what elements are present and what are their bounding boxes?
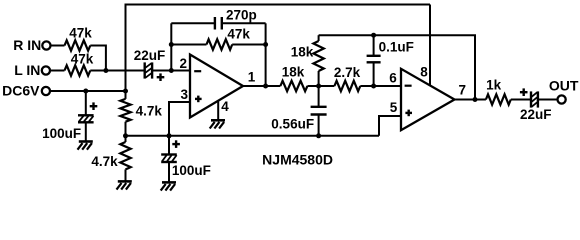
op-amp U1a xyxy=(190,55,243,118)
node bias/pin3 junction xyxy=(167,133,172,138)
terminal DC6V xyxy=(42,87,50,95)
wire V+ riser xyxy=(125,5,127,92)
svg-text:5: 5 xyxy=(390,100,398,115)
wire L IN to R2 xyxy=(50,70,64,72)
resistor R7 18k (feedback leg) xyxy=(291,35,324,86)
minus sign U1b xyxy=(405,85,412,87)
node C6 bottom xyxy=(316,133,321,138)
svg-text:0.56uF: 0.56uF xyxy=(271,116,314,131)
resistor R2 47k (L in) xyxy=(65,51,94,75)
svg-text:100uF: 100uF xyxy=(172,163,211,178)
node op2 output xyxy=(473,97,478,102)
wire R IN to R1 xyxy=(51,45,65,47)
resistor R9 1k xyxy=(486,78,531,105)
capacitor C4 270p xyxy=(171,7,265,29)
svg-text:NJM4580D: NJM4580D xyxy=(262,151,333,167)
ground supply cap xyxy=(78,142,93,150)
wire feedback right vertical xyxy=(265,23,267,86)
node A filter junction xyxy=(316,84,321,89)
resistor R4 4.7k (lower divider) xyxy=(91,136,130,182)
plus sign U1b xyxy=(405,112,412,114)
wire op2 out xyxy=(455,99,486,101)
node divider mid xyxy=(123,133,128,138)
svg-text:L IN: L IN xyxy=(14,62,40,78)
node divider top xyxy=(123,89,128,94)
svg-text:0.1uF: 0.1uF xyxy=(379,40,414,55)
node pin2/feedback xyxy=(169,68,174,73)
svg-text:18k: 18k xyxy=(282,65,305,80)
resistor R8 2.7k xyxy=(319,65,401,91)
wire DC6V rail xyxy=(50,90,125,92)
svg-text:4.7k: 4.7k xyxy=(91,154,118,169)
capacitor C6 0.56uF xyxy=(271,86,326,136)
wire C7 to OUT xyxy=(538,99,558,101)
wire filter feedback line xyxy=(319,35,475,99)
svg-text:OUT: OUT xyxy=(549,77,579,93)
svg-text:22uF: 22uF xyxy=(520,107,552,122)
svg-text:DC6V: DC6V xyxy=(2,82,40,98)
ground bias cap xyxy=(161,182,176,190)
ground pin 4 xyxy=(210,101,225,128)
svg-text:18k: 18k xyxy=(291,45,314,60)
resistor R5 47k feedback xyxy=(171,26,265,49)
svg-text:100uF: 100uF xyxy=(42,126,81,141)
svg-text:1k: 1k xyxy=(486,78,502,93)
svg-text:4.7k: 4.7k xyxy=(136,104,163,119)
svg-text:7: 7 xyxy=(459,83,467,98)
terminal OUT xyxy=(558,95,566,103)
svg-text:8: 8 xyxy=(420,64,428,79)
svg-text:47k: 47k xyxy=(71,51,94,66)
wire pin 5 riser xyxy=(379,116,401,136)
capacitor C1 22uF input xyxy=(134,48,166,81)
svg-text:6: 6 xyxy=(389,71,397,86)
svg-text:2: 2 xyxy=(179,56,187,71)
svg-text:270p: 270p xyxy=(226,7,257,22)
wire C1 to pin 2 xyxy=(152,70,190,72)
wire op1 out to R6 xyxy=(243,85,280,87)
wire pin 3 stub xyxy=(169,102,190,136)
resistor R3 4.7k (upper divider) xyxy=(120,91,162,136)
node op1 output xyxy=(263,84,268,89)
wire R1 to L junction xyxy=(90,46,106,71)
ground divider xyxy=(117,181,132,189)
terminal L IN xyxy=(42,66,50,74)
svg-text:22uF: 22uF xyxy=(134,48,166,63)
resistor R1 47k (R in) xyxy=(65,26,93,51)
minus sign U1a xyxy=(194,70,201,72)
node C5 bottom xyxy=(371,84,376,89)
node feedback left split xyxy=(169,42,174,47)
node C5 top xyxy=(371,33,376,38)
capacitor C2 100uF (supply) xyxy=(42,91,97,142)
wire pin 8 riser xyxy=(429,5,431,86)
wire feedback left vertical xyxy=(170,23,172,70)
wire V+ top rail xyxy=(125,4,431,6)
capacitor C5 0.1uF xyxy=(367,35,414,86)
svg-text:3: 3 xyxy=(181,87,189,102)
wire junction to C1 xyxy=(90,70,144,72)
svg-text:R IN: R IN xyxy=(13,37,41,53)
svg-text:2.7k: 2.7k xyxy=(334,65,361,80)
plus sign U1a xyxy=(195,98,202,100)
svg-text:1: 1 xyxy=(248,69,256,84)
node feedback right split xyxy=(263,42,268,47)
svg-text:4: 4 xyxy=(221,99,229,114)
resistor R6 18k series xyxy=(280,65,318,92)
capacitor C3 100uF (bias) xyxy=(161,136,211,183)
svg-text:47k: 47k xyxy=(227,26,250,41)
node C2 tap xyxy=(83,89,88,94)
capacitor C7 22uF output xyxy=(520,88,552,122)
wire bias rail xyxy=(126,135,380,137)
terminal R IN xyxy=(42,41,50,49)
op-amp U1b xyxy=(401,69,455,130)
node R/L mix junction xyxy=(103,68,108,73)
svg-text:47k: 47k xyxy=(69,26,92,41)
